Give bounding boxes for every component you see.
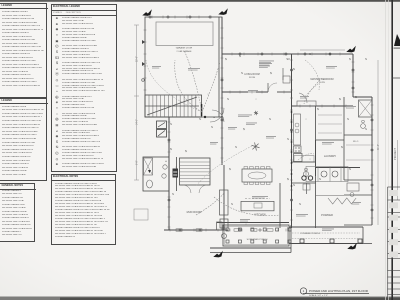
svg-text:S: S xyxy=(319,177,321,181)
svg-text:$: $ xyxy=(229,167,231,171)
svg-text:S: S xyxy=(349,167,351,171)
svg-text:●: ● xyxy=(221,148,223,151)
svg-text:$: $ xyxy=(170,147,172,151)
svg-text:14'-0": 14'-0" xyxy=(137,119,139,125)
svg-text:$: $ xyxy=(341,145,343,149)
svg-text:$: $ xyxy=(339,97,341,101)
svg-text:SCALE: 1/4" = 1'-0": SCALE: 1/4" = 1'-0" xyxy=(309,294,328,297)
svg-text:PROJECT: PROJECT xyxy=(393,147,397,160)
svg-text:$: $ xyxy=(243,127,245,131)
svg-text:○: ○ xyxy=(207,93,209,96)
svg-text:S: S xyxy=(365,57,367,61)
svg-text:S3: S3 xyxy=(286,57,290,61)
svg-text:S: S xyxy=(299,202,301,206)
svg-text:S: S xyxy=(231,202,233,206)
svg-text:COVERED PORCH: COVERED PORCH xyxy=(300,233,320,235)
svg-text:POWDER: POWDER xyxy=(321,213,333,217)
svg-text:$: $ xyxy=(287,177,289,181)
svg-text:S: S xyxy=(269,117,271,121)
svg-text:LIVING ROOM: LIVING ROOM xyxy=(244,74,259,76)
svg-text:S: S xyxy=(199,117,201,121)
svg-text:S: S xyxy=(347,117,349,121)
svg-text:$: $ xyxy=(293,67,295,71)
svg-text:S: S xyxy=(287,137,289,141)
svg-text:2 CAR GARAGE: 2 CAR GARAGE xyxy=(176,50,192,53)
svg-text:SCREENED PORCH: SCREENED PORCH xyxy=(247,239,268,241)
svg-text:1: 1 xyxy=(303,289,305,293)
svg-text:S: S xyxy=(235,145,237,149)
svg-text:S: S xyxy=(170,122,172,126)
svg-text:$: $ xyxy=(317,107,319,111)
svg-text:○: ○ xyxy=(245,223,247,226)
svg-text:$: $ xyxy=(349,57,351,61)
svg-text:31'-4": 31'-4" xyxy=(378,144,380,150)
svg-text:$: $ xyxy=(270,71,272,75)
svg-text:22'-6": 22'-6" xyxy=(137,56,139,62)
svg-text:S: S xyxy=(241,71,243,75)
svg-text:KITCHEN: KITCHEN xyxy=(254,213,266,217)
svg-text:●: ● xyxy=(213,116,215,119)
svg-text:○: ○ xyxy=(255,98,257,101)
svg-text:ROOM: ROOM xyxy=(249,77,255,79)
svg-text:$: $ xyxy=(185,149,187,153)
svg-text:W.I.C.: W.I.C. xyxy=(353,141,359,143)
svg-text:⌀: ⌀ xyxy=(165,160,167,163)
svg-text:S: S xyxy=(293,183,295,187)
svg-text:S: S xyxy=(227,97,229,101)
svg-text:MASTER BEDROOM: MASTER BEDROOM xyxy=(311,78,334,81)
svg-text:S: S xyxy=(309,52,311,56)
svg-text:$: $ xyxy=(225,57,227,61)
svg-text:S: S xyxy=(172,192,174,196)
svg-text:S: S xyxy=(211,125,213,129)
svg-text:S: S xyxy=(365,127,367,131)
svg-text:○: ○ xyxy=(305,118,307,121)
svg-text:MUD ROOM: MUD ROOM xyxy=(187,210,202,214)
svg-text:POWER AND LIGHTING PLAN, 1ST F: POWER AND LIGHTING PLAN, 1ST FLOOR xyxy=(309,289,369,293)
svg-text:SUITE: SUITE xyxy=(319,82,326,84)
svg-text:○: ○ xyxy=(309,158,311,161)
svg-text:9'-8": 9'-8" xyxy=(137,160,139,165)
svg-text:GARAGE DOOR: GARAGE DOOR xyxy=(176,47,193,50)
svg-text:LAUNDRY: LAUNDRY xyxy=(324,154,337,158)
